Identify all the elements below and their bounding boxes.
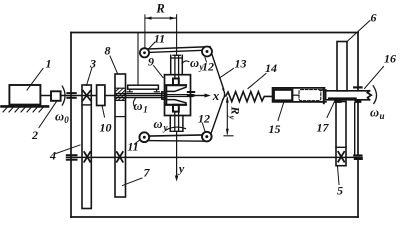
svg-text:R: R bbox=[229, 105, 243, 114]
svg-text:ω: ω bbox=[133, 99, 142, 113]
svg-text:ω: ω bbox=[55, 110, 64, 124]
svg-text:x: x bbox=[212, 88, 220, 103]
svg-text:5: 5 bbox=[337, 184, 343, 198]
svg-text:ω: ω bbox=[370, 106, 379, 120]
svg-text:1: 1 bbox=[46, 57, 52, 71]
svg-text:7: 7 bbox=[144, 166, 151, 180]
svg-text:y: y bbox=[228, 115, 238, 120]
svg-text:ω: ω bbox=[190, 56, 199, 70]
svg-text:R: R bbox=[155, 2, 164, 16]
svg-text:и: и bbox=[379, 111, 384, 121]
svg-text:12: 12 bbox=[198, 112, 210, 126]
svg-text:y: y bbox=[177, 162, 185, 176]
svg-text:15: 15 bbox=[269, 122, 281, 136]
svg-text:ω: ω bbox=[153, 117, 162, 131]
svg-text:0: 0 bbox=[64, 115, 69, 125]
svg-text:2: 2 bbox=[31, 128, 38, 142]
svg-text:3: 3 bbox=[89, 57, 96, 71]
svg-text:17: 17 bbox=[317, 121, 330, 135]
svg-text:12: 12 bbox=[202, 60, 214, 74]
svg-text:10: 10 bbox=[100, 121, 112, 135]
svg-text:14: 14 bbox=[265, 61, 277, 75]
svg-text:4: 4 bbox=[49, 149, 56, 163]
svg-text:6: 6 bbox=[371, 11, 377, 25]
svg-text:9: 9 bbox=[148, 55, 154, 69]
svg-text:11: 11 bbox=[154, 32, 165, 46]
svg-text:13: 13 bbox=[235, 57, 247, 71]
svg-text:8: 8 bbox=[105, 44, 111, 58]
svg-text:16: 16 bbox=[384, 52, 396, 66]
svg-text:1: 1 bbox=[143, 105, 148, 115]
svg-text:11: 11 bbox=[127, 140, 138, 154]
